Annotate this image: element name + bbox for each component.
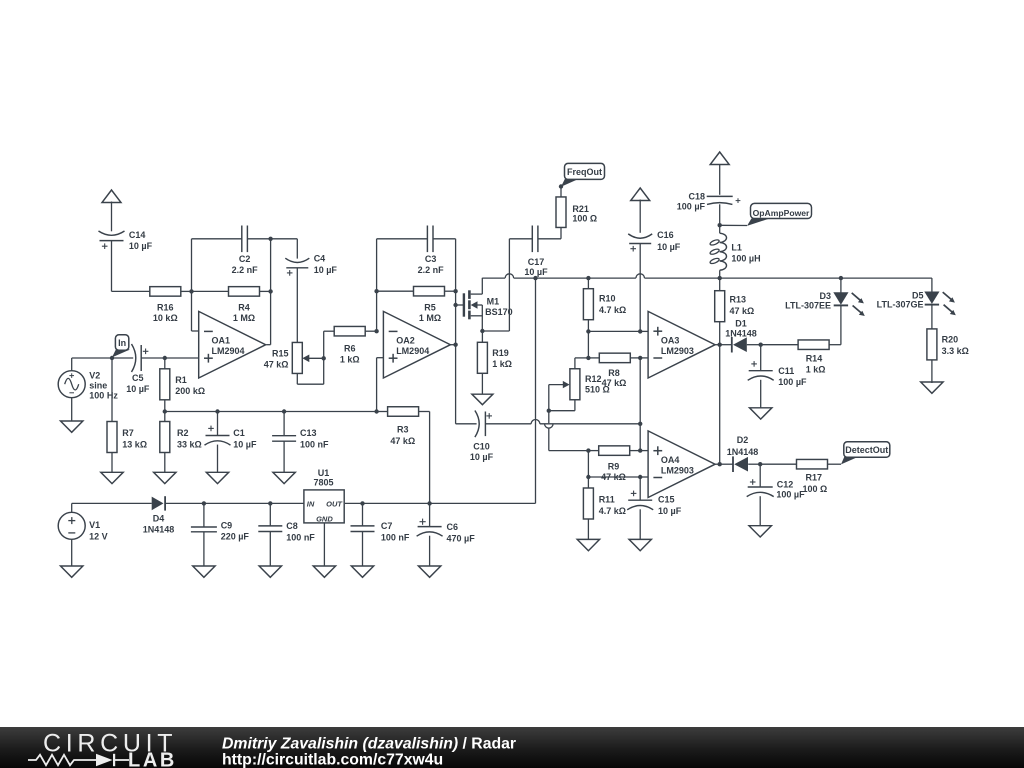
svg-text:DetectOut: DetectOut xyxy=(845,445,888,455)
svg-text:M1: M1 xyxy=(487,297,500,307)
svg-text:100 µF: 100 µF xyxy=(776,490,805,500)
svg-text:IN: IN xyxy=(307,499,315,508)
svg-text:12 V: 12 V xyxy=(89,532,108,542)
svg-text:47 kΩ: 47 kΩ xyxy=(390,436,415,446)
svg-text:R21: R21 xyxy=(572,204,589,214)
svg-text:C17: C17 xyxy=(528,257,545,267)
svg-text:100 nF: 100 nF xyxy=(300,440,329,450)
svg-text:10 µF: 10 µF xyxy=(657,242,681,252)
svg-text:LAB: LAB xyxy=(128,750,177,768)
svg-text:100 nF: 100 nF xyxy=(286,533,315,543)
svg-text:R15: R15 xyxy=(272,349,289,359)
svg-text:100 Ω: 100 Ω xyxy=(572,213,597,223)
svg-text:100 nF: 100 nF xyxy=(381,533,410,543)
svg-text:C6: C6 xyxy=(447,522,459,532)
svg-text:C14: C14 xyxy=(129,230,146,240)
svg-text:R7: R7 xyxy=(122,428,134,438)
svg-text:C18: C18 xyxy=(688,191,705,201)
svg-text:10 µF: 10 µF xyxy=(314,265,338,275)
svg-text:10 µF: 10 µF xyxy=(129,241,153,251)
svg-text:100 µH: 100 µH xyxy=(731,254,760,264)
svg-text:LM2904: LM2904 xyxy=(212,346,245,356)
svg-text:C3: C3 xyxy=(425,254,437,264)
svg-text:R5: R5 xyxy=(424,302,436,312)
svg-text:LM2903: LM2903 xyxy=(661,346,694,356)
svg-text:R6: R6 xyxy=(344,344,356,354)
svg-text:C16: C16 xyxy=(657,230,674,240)
svg-text:LTL-307EE: LTL-307EE xyxy=(785,301,831,311)
svg-text:R13: R13 xyxy=(730,295,747,305)
svg-text:R12: R12 xyxy=(585,374,602,384)
svg-text:C15: C15 xyxy=(658,495,675,505)
svg-text:1N4148: 1N4148 xyxy=(143,525,175,535)
svg-text:2.2 nF: 2.2 nF xyxy=(418,265,445,275)
svg-text:100 µF: 100 µF xyxy=(778,377,807,387)
svg-text:C2: C2 xyxy=(239,254,251,264)
svg-text:C10: C10 xyxy=(473,441,490,451)
svg-text:47 kΩ: 47 kΩ xyxy=(602,378,627,388)
svg-text:OA1: OA1 xyxy=(212,336,231,346)
svg-text:OA4: OA4 xyxy=(661,455,680,465)
svg-text:R17: R17 xyxy=(806,473,823,483)
svg-text:FreqOut: FreqOut xyxy=(567,167,602,177)
svg-text:R10: R10 xyxy=(599,294,616,304)
svg-text:C12: C12 xyxy=(777,480,794,490)
svg-text:LM2904: LM2904 xyxy=(396,346,429,356)
svg-text:Dmitriy Zavalishin (dzavalishi: Dmitriy Zavalishin (dzavalishin) / Radar xyxy=(222,736,516,753)
svg-text:R2: R2 xyxy=(177,428,189,438)
svg-text:GND: GND xyxy=(316,514,333,523)
svg-text:V2: V2 xyxy=(89,370,100,380)
svg-text:13 kΩ: 13 kΩ xyxy=(122,439,147,449)
svg-text:L1: L1 xyxy=(731,243,742,253)
svg-text:C1: C1 xyxy=(233,428,245,438)
svg-text:OUT: OUT xyxy=(326,499,343,508)
svg-text:470 µF: 470 µF xyxy=(447,534,476,544)
svg-text:C7: C7 xyxy=(381,521,393,531)
svg-text:OA3: OA3 xyxy=(661,336,680,346)
svg-text:R19: R19 xyxy=(492,348,509,358)
svg-text:R4: R4 xyxy=(238,302,250,312)
svg-text:10 kΩ: 10 kΩ xyxy=(153,313,178,323)
svg-text:10 µF: 10 µF xyxy=(524,267,548,277)
svg-text:R8: R8 xyxy=(608,368,620,378)
svg-text:U1: U1 xyxy=(318,468,330,478)
svg-text:47 kΩ: 47 kΩ xyxy=(730,306,755,316)
svg-text:1N4148: 1N4148 xyxy=(727,447,759,457)
svg-text:100 µF: 100 µF xyxy=(677,201,706,211)
svg-text:100 Hz: 100 Hz xyxy=(89,390,118,400)
svg-text:R3: R3 xyxy=(397,425,409,435)
svg-text:1N4148: 1N4148 xyxy=(725,329,757,339)
svg-text:10 µF: 10 µF xyxy=(470,452,494,462)
svg-text:200 kΩ: 200 kΩ xyxy=(175,386,205,396)
svg-text:D2: D2 xyxy=(737,435,749,445)
svg-text:10 µF: 10 µF xyxy=(126,384,150,394)
svg-text:1 kΩ: 1 kΩ xyxy=(340,354,360,364)
svg-text:7805: 7805 xyxy=(313,477,333,487)
svg-text:OpAmpPower: OpAmpPower xyxy=(753,208,810,218)
svg-text:R11: R11 xyxy=(599,495,615,505)
svg-text:C5: C5 xyxy=(132,373,144,383)
svg-text:10 µF: 10 µF xyxy=(658,506,682,516)
svg-text:33 kΩ: 33 kΩ xyxy=(177,439,202,449)
svg-text:1 MΩ: 1 MΩ xyxy=(419,313,441,323)
svg-text:sine: sine xyxy=(89,380,107,390)
svg-text:LTL-307GE: LTL-307GE xyxy=(877,300,924,310)
svg-text:10 µF: 10 µF xyxy=(233,440,257,450)
svg-text:OA2: OA2 xyxy=(396,336,415,346)
svg-text:47 kΩ: 47 kΩ xyxy=(264,359,289,369)
svg-text:D1: D1 xyxy=(735,319,747,329)
svg-text:C8: C8 xyxy=(286,521,298,531)
svg-text:C4: C4 xyxy=(314,254,326,264)
svg-text:V1: V1 xyxy=(89,520,100,530)
svg-text:4.7 kΩ: 4.7 kΩ xyxy=(599,506,626,516)
svg-text:In: In xyxy=(118,338,126,348)
svg-text:1 MΩ: 1 MΩ xyxy=(233,313,255,323)
svg-text:R14: R14 xyxy=(806,353,823,363)
svg-text:2.2 nF: 2.2 nF xyxy=(232,265,259,275)
svg-text:http://circuitlab.com/c77xw4u: http://circuitlab.com/c77xw4u xyxy=(222,752,443,768)
svg-text:C13: C13 xyxy=(300,428,317,438)
svg-text:C9: C9 xyxy=(221,521,233,531)
svg-text:LM2903: LM2903 xyxy=(661,465,694,475)
svg-text:100 Ω: 100 Ω xyxy=(803,484,828,494)
svg-text:R20: R20 xyxy=(942,335,959,345)
svg-text:220 µF: 220 µF xyxy=(221,531,250,541)
svg-text:R9: R9 xyxy=(608,461,620,471)
svg-text:BS170: BS170 xyxy=(485,307,513,317)
svg-text:3.3 kΩ: 3.3 kΩ xyxy=(942,346,969,356)
svg-text:4.7 kΩ: 4.7 kΩ xyxy=(599,305,626,315)
svg-text:R1: R1 xyxy=(175,375,187,385)
svg-text:1 kΩ: 1 kΩ xyxy=(492,359,512,369)
svg-text:1 kΩ: 1 kΩ xyxy=(806,365,826,375)
svg-text:D4: D4 xyxy=(153,514,165,524)
svg-text:R16: R16 xyxy=(157,302,174,312)
svg-text:C11: C11 xyxy=(778,366,794,376)
